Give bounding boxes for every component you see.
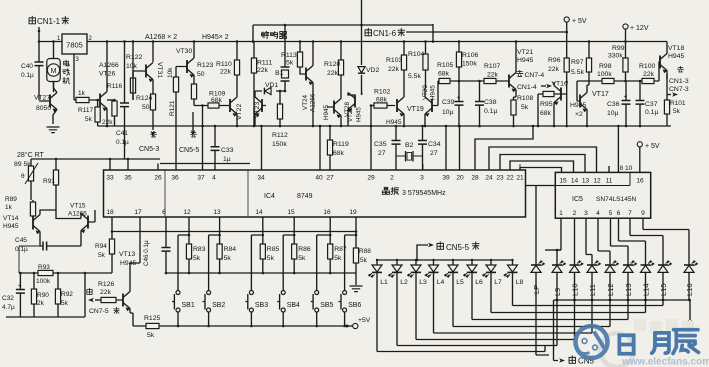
resistor R122 <box>126 42 142 101</box>
svg-text:5k: 5k <box>334 255 342 262</box>
resistor R119 <box>327 126 349 170</box>
capacitor C45 <box>15 237 81 253</box>
svg-text:9: 9 <box>641 210 645 217</box>
svg-text:18: 18 <box>106 209 114 216</box>
svg-text:VT20: VT20 <box>422 85 429 100</box>
svg-text:5k: 5k <box>673 108 681 115</box>
wire IC4 pin18 drop <box>111 217 113 232</box>
label motor chinese <box>63 60 70 84</box>
svg-text:C34: C34 <box>428 141 441 148</box>
resistor R106 <box>456 42 478 82</box>
resistor R94 <box>95 232 115 274</box>
IC4 top pin numbers <box>106 175 524 182</box>
svg-text:8 10: 8 10 <box>620 165 633 172</box>
svg-text:35: 35 <box>124 175 132 182</box>
svg-text:R110: R110 <box>216 61 232 68</box>
resistor R86 <box>292 235 311 273</box>
svg-text:26: 26 <box>154 175 162 182</box>
svg-text:R96: R96 <box>548 57 561 64</box>
svg-text:22k: 22k <box>388 66 400 73</box>
wire IC4 pin39 to rail <box>445 126 447 170</box>
IC4 bottom pin numbers <box>106 209 357 216</box>
svg-text:29: 29 <box>367 175 375 182</box>
svg-text:R97: R97 <box>571 59 584 66</box>
svg-text:R123: R123 <box>197 62 213 69</box>
logo circle elecfans <box>576 326 608 358</box>
wire segment line L7-L14 <box>491 312 646 314</box>
switch SB2 <box>203 291 226 313</box>
svg-text:2k: 2k <box>37 300 45 307</box>
svg-text:R90: R90 <box>37 292 49 299</box>
wire IC4 pin33 drop <box>109 159 111 170</box>
wire sensor row y159 <box>31 159 250 164</box>
wire IC5 pin11 stub <box>608 166 610 172</box>
svg-text:VT16: VT16 <box>552 81 568 88</box>
svg-text:C45: C45 <box>15 237 27 244</box>
svg-text:40: 40 <box>315 175 323 182</box>
svg-text:L3: L3 <box>419 279 427 286</box>
svg-text:R108: R108 <box>517 95 533 102</box>
svg-text:10k: 10k <box>126 63 138 70</box>
svg-text:CN5-3: CN5-3 <box>139 146 159 153</box>
wire switch bus y326 <box>133 325 347 327</box>
svg-text:VT31: VT31 <box>156 62 163 78</box>
wire IC5 pin to L11 <box>586 218 592 265</box>
svg-text:5k: 5k <box>147 332 155 339</box>
transistor VT13 <box>116 251 136 326</box>
svg-text:C46 0.1µ: C46 0.1µ <box>143 240 150 266</box>
wire IC4 pin28 loop to rail <box>475 126 533 170</box>
svg-text:+: + <box>457 95 461 102</box>
node CN1-6 label <box>365 28 405 38</box>
wire SB1 to bus <box>177 312 179 326</box>
svg-text:28°C RT: 28°C RT <box>17 151 45 159</box>
transistor VT27 <box>34 81 57 124</box>
svg-text:H945: H945 <box>3 223 19 230</box>
transistor VT24 <box>302 42 317 127</box>
transistor VT15 <box>56 200 95 246</box>
resistor R124 <box>136 94 156 130</box>
node CN7-5 off-page arrow <box>87 288 119 315</box>
wire IC4 pin to R84/SB2 <box>209 217 220 291</box>
svg-text:150k: 150k <box>462 61 477 68</box>
buzzer B1 <box>275 25 289 91</box>
svg-text:R105: R105 <box>437 62 453 69</box>
LED L10 <box>570 261 584 296</box>
svg-text:VT15: VT15 <box>70 203 86 210</box>
IC U4 8749 box <box>104 170 526 217</box>
transistor VT18 <box>659 42 684 82</box>
resistor R104 <box>408 42 428 81</box>
svg-text:36: 36 <box>171 175 179 182</box>
svg-text:R122: R122 <box>126 54 142 61</box>
svg-text:R85: R85 <box>267 246 280 253</box>
capacitor C41 <box>116 42 130 160</box>
wire ground bus bottom-left <box>6 273 103 317</box>
svg-text:IC5: IC5 <box>572 196 583 203</box>
svg-text:CN1-1: CN1-1 <box>37 17 61 26</box>
svg-text:+: + <box>18 283 22 290</box>
LED L5 <box>444 260 464 327</box>
wire right cathode bus y300 <box>554 300 691 320</box>
svg-text:R104: R104 <box>408 51 424 58</box>
resistor R100 <box>639 63 655 84</box>
wire CN1-1 drop <box>38 27 40 42</box>
svg-text:R119: R119 <box>333 141 349 148</box>
svg-text:R117: R117 <box>78 107 93 114</box>
svg-text:SB5: SB5 <box>320 302 333 309</box>
svg-text:68k: 68k <box>376 97 388 104</box>
svg-text:5k: 5k <box>267 255 275 262</box>
switch SB1 <box>172 291 195 313</box>
svg-text:22k: 22k <box>487 72 499 79</box>
capacitor C35 <box>374 126 401 157</box>
wire to IC4 pin 29 <box>370 106 372 171</box>
svg-text:+ 12V: + 12V <box>630 25 649 32</box>
resistor R125 <box>144 315 160 339</box>
wire IC4 pin to R86/SB4 <box>283 217 294 291</box>
svg-text:M: M <box>51 68 57 75</box>
svg-text:R126: R126 <box>98 281 114 288</box>
svg-text:8749: 8749 <box>297 193 313 200</box>
LED L2 <box>388 260 408 346</box>
wire right cathode verticals <box>557 272 689 345</box>
wire SB3 to bus <box>250 312 252 326</box>
LED LP <box>526 186 556 356</box>
arrow L16 down <box>688 320 692 326</box>
svg-text:+5V: +5V <box>358 317 371 324</box>
svg-text:×2: ×2 <box>575 111 583 118</box>
svg-text:R112: R112 <box>272 132 288 139</box>
svg-text:+ 5V: + 5V <box>645 143 660 150</box>
svg-text:R106: R106 <box>462 52 478 59</box>
LED L6 <box>463 260 483 320</box>
svg-text:0.1µ: 0.1µ <box>645 109 658 116</box>
svg-text:2: 2 <box>390 175 394 182</box>
wire SB6 to bus <box>344 312 346 326</box>
svg-text:CN7-5: CN7-5 <box>89 308 109 315</box>
resistor R91 <box>43 159 59 200</box>
svg-text:H945: H945 <box>386 119 402 126</box>
transistor VT28 <box>323 75 351 126</box>
resistor R95 <box>538 91 561 126</box>
capacitor C38 <box>475 81 498 126</box>
svg-text:1: 1 <box>559 210 563 217</box>
wire IC4 pin22 to IC5 pin14 <box>510 161 574 172</box>
transistor VT30 <box>176 42 194 85</box>
svg-text:5k: 5k <box>98 252 106 259</box>
svg-text:5k: 5k <box>61 300 69 307</box>
svg-text:22: 22 <box>506 175 514 182</box>
svg-text:R99: R99 <box>612 45 625 52</box>
wire segment line L1 <box>377 346 545 352</box>
wire segment line L5-L12 <box>453 326 610 328</box>
svg-text:34: 34 <box>257 175 265 182</box>
resistor R101 <box>664 74 686 126</box>
svg-text:VT21: VT21 <box>517 49 533 56</box>
svg-text:7805: 7805 <box>66 41 83 50</box>
svg-text:VT18: VT18 <box>668 45 684 52</box>
capacitor C32 <box>2 273 25 317</box>
wire IC4 pin35 drop <box>127 159 129 170</box>
svg-text:www.elecfans.com: www.elecfans.com <box>621 357 709 367</box>
svg-text:VT30: VT30 <box>176 48 192 55</box>
wire SB2 to bus <box>208 312 210 326</box>
svg-text:C41: C41 <box>116 130 128 137</box>
svg-text:CN1-3: CN1-3 <box>669 78 689 85</box>
svg-text:10µ: 10µ <box>607 110 619 117</box>
svg-text:R91: R91 <box>43 178 55 185</box>
wire resistor bottom bus y273 <box>166 272 356 274</box>
svg-text:0.1µ: 0.1µ <box>116 139 129 146</box>
svg-text:VT29: VT29 <box>347 107 354 122</box>
transistor VT21 <box>509 42 533 101</box>
svg-text:7: 7 <box>628 210 632 217</box>
svg-text:27: 27 <box>430 150 438 157</box>
resistor R92 <box>55 273 73 317</box>
LED L14 <box>641 261 655 296</box>
svg-text:θ: θ <box>21 173 25 180</box>
svg-text:50: 50 <box>197 71 205 78</box>
wire IC4 pin17 drop <box>130 217 140 263</box>
wire IC5 pin to L12 <box>598 218 610 265</box>
svg-text:37: 37 <box>197 175 205 182</box>
svg-text:22k: 22k <box>257 67 269 74</box>
svg-text:R125: R125 <box>144 315 160 322</box>
svg-text:A1266: A1266 <box>68 211 87 218</box>
transistor VT26 <box>98 42 119 127</box>
resistor R123 <box>191 62 213 106</box>
wire to IC4 pin 34 <box>261 126 263 170</box>
wire buzzer top rail y25 <box>253 24 433 42</box>
svg-text:24: 24 <box>485 175 493 182</box>
svg-text:C40: C40 <box>21 63 33 70</box>
capacitor C39 <box>442 81 464 126</box>
svg-text:CN7-4: CN7-4 <box>525 72 545 79</box>
svg-text:100k: 100k <box>36 278 51 285</box>
svg-text:R83: R83 <box>193 246 206 253</box>
svg-text:LP: LP <box>532 285 541 294</box>
svg-text:CN7-3: CN7-3 <box>669 86 689 93</box>
diode VD2 <box>358 67 380 74</box>
wire 7805 pin3 <box>73 54 75 100</box>
svg-text:5: 5 <box>609 210 613 217</box>
svg-text:CN1-4: CN1-4 <box>517 84 537 91</box>
motor M1 <box>47 40 60 92</box>
resistor R126 <box>98 281 116 303</box>
svg-text:C35: C35 <box>374 141 387 148</box>
resistor R98 <box>597 63 614 84</box>
svg-text:SB4: SB4 <box>287 302 300 309</box>
svg-text:330k: 330k <box>608 53 623 60</box>
svg-text:H945: H945 <box>570 102 586 109</box>
svg-text:R102: R102 <box>374 89 390 96</box>
svg-text:2: 2 <box>573 210 577 217</box>
LED L9 <box>552 261 566 296</box>
svg-text:CN5-5: CN5-5 <box>446 243 470 252</box>
wire IC4 pin21 to IC5 pin15 <box>520 168 562 173</box>
transistor VT23 <box>254 91 266 126</box>
transistor VT16 <box>552 81 568 127</box>
ground VT27 emitter <box>47 127 60 133</box>
svg-text:50: 50 <box>142 104 150 111</box>
switch SB5 <box>311 291 334 313</box>
LED L4 <box>425 260 445 333</box>
svg-text:VD2: VD2 <box>366 67 379 74</box>
resistor R105 <box>437 62 453 84</box>
wire IC4 pin to R87/SB5 <box>317 217 331 291</box>
svg-text:VT19: VT19 <box>407 106 424 113</box>
wire emitter-ground rail y126 <box>98 125 671 127</box>
wire base bus y81 VT18 <box>577 80 659 82</box>
wire IC4 pin23 to IC5 pin13 <box>500 155 585 173</box>
IC5 top pin numbers <box>559 178 644 185</box>
transistor VT14 <box>3 210 56 240</box>
node CN5 arrow <box>559 356 595 366</box>
wire IC4 pin24 to IC5 pin12 <box>489 147 597 172</box>
LED L12 <box>605 261 619 296</box>
svg-text:12: 12 <box>183 209 191 216</box>
transistor VT31 <box>133 42 163 101</box>
svg-text:R116: R116 <box>107 83 122 90</box>
wire pin1 spur <box>545 249 561 251</box>
regulator U-7805 <box>57 34 93 63</box>
svg-text:4: 4 <box>212 175 216 182</box>
resistor R88 <box>353 217 371 285</box>
node CN1-1 label <box>29 16 69 26</box>
svg-text:R98: R98 <box>599 63 612 70</box>
svg-text:3 579545MHz: 3 579545MHz <box>402 190 446 197</box>
svg-text:13: 13 <box>582 178 590 185</box>
svg-text:14: 14 <box>255 209 263 216</box>
svg-text:L2: L2 <box>400 279 408 286</box>
svg-text:B1: B1 <box>275 70 284 77</box>
svg-text:VT26: VT26 <box>99 71 115 78</box>
wire key row y231 <box>112 231 356 233</box>
resistor R112 <box>272 91 288 148</box>
svg-text:17: 17 <box>134 209 142 216</box>
svg-text:16: 16 <box>636 178 644 185</box>
node CN5-5 feed arrow <box>416 242 479 262</box>
svg-text:15: 15 <box>559 178 567 185</box>
svg-text:H945: H945 <box>668 53 684 60</box>
svg-text:L6: L6 <box>475 279 483 286</box>
svg-text:22k: 22k <box>100 289 112 296</box>
resistor R111 <box>251 42 272 127</box>
node CN5-3 off-page arrow <box>139 131 159 153</box>
logo text ri <box>619 335 633 353</box>
wire IC4 pin26 drop <box>157 164 159 171</box>
svg-text:5k: 5k <box>286 60 294 67</box>
node CN1-4 off-page arrow <box>517 84 552 91</box>
LED L13 <box>623 261 637 296</box>
LED L3 <box>407 260 427 340</box>
svg-text:VT22: VT22 <box>236 104 243 120</box>
svg-text:R92: R92 <box>61 291 73 298</box>
svg-text:5k: 5k <box>85 116 93 123</box>
capacitor C40 <box>21 42 44 101</box>
terminal +5V right <box>637 142 660 173</box>
svg-text:+ 5V: + 5V <box>572 18 587 25</box>
svg-text:10µ: 10µ <box>442 109 454 116</box>
svg-text:R100: R100 <box>639 63 655 70</box>
svg-text:0.1µ: 0.1µ <box>21 72 34 79</box>
wire segment line L6-L13 <box>472 319 628 321</box>
LED L11 <box>587 261 601 296</box>
svg-text:SB3: SB3 <box>255 302 268 309</box>
svg-text:R93: R93 <box>38 264 50 271</box>
svg-text:VT14: VT14 <box>3 215 19 222</box>
svg-text:5.5k: 5.5k <box>571 69 584 76</box>
transistor VT17 <box>577 81 609 126</box>
svg-text:39: 39 <box>442 175 450 182</box>
resistor R108 <box>511 95 534 126</box>
diode VD1 <box>255 82 285 95</box>
svg-text:VT27: VT27 <box>34 95 50 102</box>
svg-text:5k: 5k <box>298 255 306 262</box>
capacitor C36 <box>607 81 631 126</box>
capacitor C46 <box>143 217 171 273</box>
svg-text:8050: 8050 <box>36 105 51 112</box>
svg-text:3: 3 <box>584 210 588 217</box>
resistor R99 <box>608 42 628 82</box>
switch SB6 wiring <box>345 235 356 291</box>
resistor R117 <box>85 100 100 126</box>
wire IC4 pin20 to rail <box>459 126 461 170</box>
LED L16 <box>684 261 698 296</box>
svg-text:C38: C38 <box>484 99 497 106</box>
svg-text:68k: 68k <box>540 110 552 117</box>
resistor R96 <box>548 57 569 126</box>
svg-text:A1268 × 2: A1268 × 2 <box>145 34 177 41</box>
wire IC5 pin to L16 <box>643 218 689 265</box>
wire +5V sub-rail y32 <box>406 31 567 33</box>
wire 7805 input <box>39 41 62 43</box>
svg-text:L4: L4 <box>437 279 445 286</box>
LED L1 <box>368 260 388 352</box>
svg-text:4.7µ: 4.7µ <box>2 304 15 311</box>
svg-text:5k: 5k <box>521 104 529 111</box>
node CN7-4 off-page label <box>516 70 544 79</box>
terminal +5V bottom <box>346 317 371 329</box>
wire to IC4 pin 37 <box>202 106 204 171</box>
transistor VT20 <box>422 70 438 126</box>
wire IC5 pin to L13 <box>611 218 629 265</box>
svg-text:14: 14 <box>571 178 579 185</box>
svg-text:22k: 22k <box>220 69 232 76</box>
svg-text:22k: 22k <box>327 70 339 77</box>
resistor R83 <box>186 235 205 273</box>
svg-text:1k: 1k <box>5 204 13 211</box>
svg-text:CN1-6: CN1-6 <box>373 29 397 38</box>
resistor R87 <box>328 235 347 273</box>
svg-text:12: 12 <box>593 178 601 185</box>
wire segment line L8-L15 <box>513 305 664 307</box>
svg-text:28: 28 <box>471 175 479 182</box>
capacitor C37 <box>635 81 658 126</box>
svg-text:68k: 68k <box>438 71 450 78</box>
IC U5 SN74LS145N box <box>555 172 650 218</box>
svg-text:A1266: A1266 <box>99 62 119 69</box>
svg-text:5k: 5k <box>224 255 232 262</box>
resistor R97 <box>571 42 592 86</box>
wire main +V rail y41.5 <box>87 41 667 43</box>
resistor R90 <box>31 273 49 317</box>
svg-text:VD1: VD1 <box>265 82 278 89</box>
svg-text:R89: R89 <box>5 196 17 203</box>
wire IC5 pins 8 10 to rail <box>617 125 633 173</box>
resistor R121 <box>167 67 179 171</box>
